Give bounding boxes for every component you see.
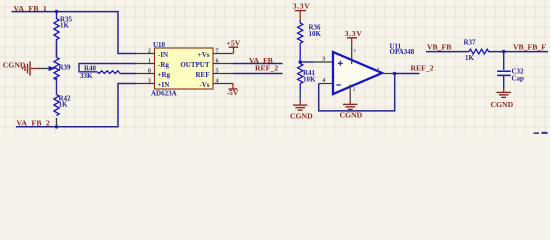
- resistor R35: [54, 12, 59, 58]
- svg-text:CGND: CGND: [491, 100, 514, 109]
- pin -IN U11: [319, 83, 333, 85]
- junction output: [393, 72, 397, 76]
- resistor R36: [298, 21, 303, 63]
- svg-text:-Vs: -Vs: [199, 81, 209, 89]
- edge artifact bottom right: [534, 132, 540, 134]
- svg-text:+Rg: +Rg: [158, 71, 171, 79]
- pin 3: [134, 83, 155, 85]
- svg-text:5: 5: [216, 68, 219, 75]
- svg-text:REF_2: REF_2: [255, 63, 278, 72]
- svg-text:VB_FB_F: VB_FB_F: [513, 43, 546, 52]
- svg-text:7: 7: [216, 48, 219, 55]
- junction bottom of R42: [55, 125, 59, 129]
- minus mark: [336, 84, 341, 86]
- resistor R41: [298, 62, 303, 89]
- svg-text:CGND: CGND: [290, 111, 313, 120]
- svg-text:1K: 1K: [465, 54, 475, 62]
- svg-text:VB_FB: VB_FB: [427, 43, 451, 52]
- capacitor C32: [497, 71, 511, 75]
- svg-text:10K: 10K: [309, 30, 322, 38]
- wire rail R39-R42: [56, 78, 58, 95]
- svg-text:4: 4: [216, 78, 219, 85]
- svg-text:33K: 33K: [80, 72, 93, 80]
- pin 7: [213, 53, 234, 55]
- svg-text:Cap: Cap: [512, 74, 525, 82]
- wire rail R35-R39: [56, 41, 58, 58]
- wire bottom net VA_FB_2: [16, 84, 136, 127]
- svg-text:-Rg: -Rg: [158, 61, 169, 69]
- wire to VB_FB_F: [489, 51, 548, 53]
- pin 8: [134, 73, 155, 75]
- pin 4: [213, 83, 234, 85]
- svg-text:3: 3: [148, 78, 151, 85]
- svg-text:OPA348: OPA348: [390, 48, 415, 56]
- power pin bottom U11: [349, 85, 351, 101]
- wire VA_FB: [233, 63, 283, 65]
- svg-text:1: 1: [377, 67, 380, 74]
- pin 6: [213, 63, 234, 65]
- svg-text:3.3V: 3.3V: [293, 2, 311, 11]
- svg-text:+5V: +5V: [227, 39, 241, 48]
- op-amp U11 triangle: [333, 52, 382, 94]
- power pin top U11: [351, 43, 353, 64]
- junction C32: [502, 50, 506, 54]
- resistor R42: [54, 95, 59, 116]
- ground CGND (U11): [349, 100, 351, 104]
- svg-text:AD623A: AD623A: [151, 90, 177, 98]
- svg-text:U10: U10: [153, 41, 166, 49]
- svg-text:+Vs: +Vs: [198, 51, 210, 59]
- resistor R40: [98, 71, 120, 74]
- junction top of R35: [55, 10, 59, 14]
- svg-text:-IN: -IN: [158, 51, 168, 59]
- svg-text:4: 4: [322, 77, 325, 84]
- svg-text:1K: 1K: [60, 22, 70, 30]
- svg-text:1K: 1K: [59, 101, 69, 109]
- pin +IN U11: [314, 61, 333, 63]
- svg-text:10K: 10K: [303, 76, 316, 84]
- svg-text:CGND: CGND: [340, 111, 363, 120]
- plus mark: [338, 61, 343, 66]
- output pin U11: [382, 73, 392, 75]
- power port -5V: [232, 84, 234, 90]
- wire C32 to ground: [503, 75, 505, 88]
- wire top net VA_FB_1: [12, 12, 137, 54]
- pin 1: [134, 63, 155, 65]
- wire divider to +in: [300, 61, 314, 63]
- svg-text:R37: R37: [464, 39, 477, 47]
- potentiometer R39: [54, 58, 59, 80]
- svg-text:REF_2: REF_2: [411, 64, 434, 73]
- svg-text:3: 3: [322, 56, 325, 63]
- wire CGND to R39 wiper: [31, 68, 38, 70]
- op-amp U10 body: [155, 48, 214, 89]
- svg-text:-5V: -5V: [227, 88, 239, 97]
- wire VB_FB: [426, 51, 468, 53]
- wire REF_2: [233, 73, 283, 75]
- svg-text:8: 8: [148, 68, 151, 75]
- resistor R37: [468, 49, 490, 54]
- svg-text:REF: REF: [196, 71, 210, 79]
- svg-text:OUTPUT: OUTPUT: [180, 61, 210, 69]
- wiper arrow of R39: [49, 66, 56, 71]
- ground CGND (C32): [503, 89, 505, 93]
- wire junction to C32: [503, 52, 505, 70]
- svg-text:+IN: +IN: [158, 81, 170, 89]
- pin 5: [213, 73, 234, 75]
- svg-text:R39: R39: [59, 64, 72, 72]
- wire pin1 to R40: [79, 64, 136, 72]
- ground CGND (R41): [299, 89, 301, 100]
- svg-text:3.3V: 3.3V: [345, 29, 363, 38]
- wire output REF_2: [392, 73, 420, 75]
- pin 2: [134, 53, 155, 55]
- wire feedback loop: [319, 74, 395, 111]
- svg-text:1: 1: [148, 58, 151, 65]
- junction divider: [298, 60, 302, 64]
- svg-text:6: 6: [216, 58, 219, 65]
- pin stub R42 bottom: [56, 118, 58, 127]
- svg-text:2: 2: [148, 48, 151, 55]
